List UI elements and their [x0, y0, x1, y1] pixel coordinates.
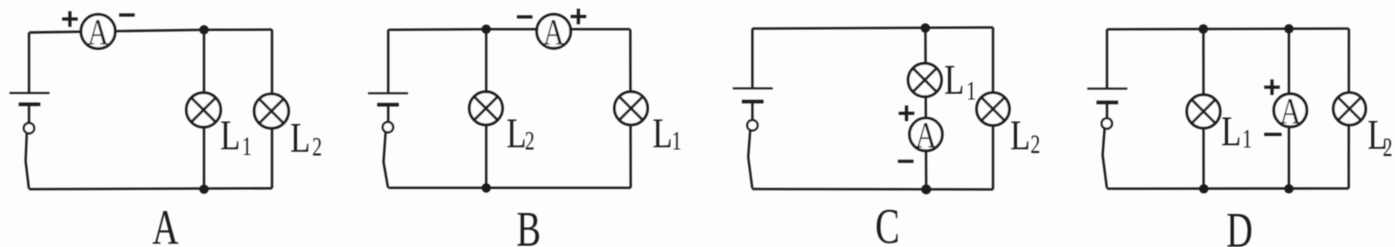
wire right branch (lamp L2) [271, 30, 273, 189]
node junction bottom of middle branch [921, 184, 931, 194]
wire branch 2 (ammeter) [1288, 29, 1290, 189]
open switch S-D [1102, 118, 1112, 188]
polarity plus ammeter B right [571, 9, 587, 25]
polarity plus ammeter C upper [899, 106, 915, 122]
lamp L1 (circuit A) [186, 93, 220, 127]
wire right branch (lamp L2) [992, 27, 994, 189]
wire bottom return [1107, 187, 1349, 190]
svg-text:1: 1 [242, 132, 252, 160]
svg-text:2: 2 [1383, 133, 1393, 161]
svg-text:A: A [915, 115, 936, 156]
op-amp-style ammeter A (circuit C) [910, 115, 943, 156]
node junction top of branch 1 [1199, 24, 1208, 33]
wire top (battery positive to lamps) [29, 30, 272, 33]
svg-text:A: A [543, 12, 564, 53]
svg-text:D: D [1226, 203, 1252, 247]
node junction top of branch 2 [1284, 24, 1293, 33]
node junction top of L1 branch [199, 25, 208, 34]
op-amp-style ammeter A (circuit A) [81, 13, 115, 54]
label L1 of circuit D [1221, 109, 1252, 156]
wire left upper [387, 30, 389, 93]
lamp L2 (circuit D) [1333, 93, 1365, 125]
battery cell BT-C [733, 88, 773, 101]
svg-text:2: 2 [525, 127, 535, 155]
battery cell BT-D [1087, 89, 1127, 103]
svg-text:1: 1 [1242, 125, 1252, 153]
svg-text:L: L [944, 57, 964, 104]
wire left lower [751, 102, 753, 121]
op-amp-style ammeter A (circuit D) [1274, 91, 1307, 132]
svg-text:L: L [1010, 113, 1030, 160]
open switch S-C [747, 120, 757, 188]
svg-text:L: L [653, 111, 673, 158]
wire left upper [1106, 29, 1108, 88]
wire bottom return [388, 187, 631, 189]
svg-text:C: C [875, 199, 899, 247]
label L1 of circuit C [944, 57, 976, 105]
polarity minus ammeter A right [119, 13, 135, 16]
lamp L2 (circuit B) [469, 92, 502, 125]
svg-text:2: 2 [312, 133, 322, 161]
battery cell BT-B [368, 93, 408, 105]
op-amp-style ammeter A (circuit B) [537, 12, 571, 53]
svg-text:L: L [220, 113, 240, 160]
lamp L1 (circuit C) [908, 63, 941, 96]
wire top [388, 28, 630, 31]
wire middle branch (lamp L1) [203, 30, 205, 189]
lamp L1 (circuit D) [1187, 95, 1220, 128]
polarity plus ammeter A left [62, 11, 78, 27]
polarity minus ammeter D lower [1264, 133, 1281, 136]
label L2 of circuit A [290, 115, 322, 162]
wire branch 1 (lamp L1) [1202, 29, 1205, 189]
wire left lower [387, 105, 389, 123]
svg-text:A: A [1280, 91, 1301, 132]
svg-text:1: 1 [966, 77, 976, 105]
label L2 of circuit B [507, 111, 535, 158]
open switch S-A [24, 123, 34, 189]
wire left upper (top corner to battery) [28, 33, 30, 94]
svg-text:A: A [152, 201, 179, 247]
node junction top of L2 branch [482, 25, 491, 34]
svg-text:L: L [290, 115, 310, 162]
wire top [752, 27, 993, 28]
node junction top of middle branch [921, 23, 930, 32]
battery cell BT-A [10, 93, 50, 104]
svg-text:1: 1 [672, 127, 682, 155]
wire left upper [751, 29, 753, 89]
svg-text:A: A [87, 13, 108, 54]
wire bottom return [29, 187, 272, 190]
polarity minus ammeter B left [517, 15, 533, 18]
wire middle branch (lamp L2) [485, 29, 487, 188]
wire right branch (lamp L1) [629, 29, 632, 188]
node junction bottom of branch 1 [1199, 184, 1208, 193]
svg-text:B: B [517, 202, 541, 247]
node junction bottom of L2 branch [482, 183, 491, 192]
polarity minus ammeter C lower [898, 160, 914, 163]
wire left lower (battery to switch) [28, 104, 30, 123]
polarity plus ammeter D upper [1264, 79, 1280, 95]
wire middle branch (lamp L1 + ammeter) [924, 28, 927, 190]
svg-text:L: L [1221, 109, 1241, 156]
node junction bottom of L1 branch [199, 185, 208, 194]
wire right branch (lamp L2) [1347, 29, 1350, 189]
node junction bottom of branch 2 [1284, 184, 1293, 193]
lamp L2 (circuit C) [977, 93, 1010, 126]
label L2 of circuit D [1368, 112, 1393, 161]
open switch S-B [383, 122, 393, 188]
wire left lower [1106, 102, 1108, 118]
label L1 of circuit A [220, 113, 252, 161]
lamp L2 (circuit A) [254, 94, 288, 128]
label L1 of circuit B [653, 111, 682, 158]
label L2 of circuit C [1010, 113, 1040, 160]
lamp L1 (circuit B) [614, 92, 647, 125]
svg-text:L: L [507, 111, 527, 158]
wire bottom return [752, 188, 993, 191]
wire top [1107, 27, 1349, 30]
svg-text:2: 2 [1031, 130, 1041, 158]
